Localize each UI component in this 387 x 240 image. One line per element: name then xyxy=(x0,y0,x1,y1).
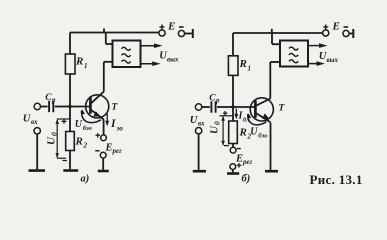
label U_beo (right) xyxy=(250,127,268,140)
wire: +E supply rail (left) xyxy=(70,32,159,34)
wire: R2 to ground (left) xyxy=(69,151,71,170)
svg-text:R: R xyxy=(239,127,247,139)
label Cp (right) xyxy=(209,94,220,105)
polarity + of E_reg (left) xyxy=(96,133,101,138)
label R1 (left) xyxy=(75,56,88,71)
polarity - of E_reg (left) xyxy=(95,150,99,152)
output arrow U_vyx bottom (left) xyxy=(141,61,161,66)
input terminal U_vx top (right) xyxy=(195,104,201,110)
resistor R1 (left) xyxy=(65,54,75,74)
ground (left R2) xyxy=(63,169,78,172)
svg-text:вых: вых xyxy=(167,56,179,64)
transistor T (right) xyxy=(250,98,273,123)
svg-text:R: R xyxy=(75,56,83,68)
svg-text:а): а) xyxy=(81,174,90,185)
wire: collector up to block stub (left) xyxy=(103,62,105,92)
label I_eo (left) xyxy=(110,118,123,133)
svg-text:U: U xyxy=(75,119,83,130)
label Cp (left) xyxy=(45,93,56,104)
capacitor Cp (right) xyxy=(211,101,215,112)
terminal E_reg - (left) xyxy=(100,152,106,158)
svg-text:2: 2 xyxy=(83,142,88,150)
label I_dl (right) xyxy=(238,111,251,124)
output arrow U_vyx top (right) xyxy=(308,43,328,48)
svg-text:U: U xyxy=(250,127,258,138)
ground (left E_reg) xyxy=(98,170,109,173)
wire: E_reg to ground (left) xyxy=(102,158,104,170)
wire: collector stub to block (right) xyxy=(270,61,280,63)
svg-text:E: E xyxy=(235,154,243,165)
node: base divider junction (right) xyxy=(231,105,234,108)
polarity - of E_reg (right) xyxy=(237,148,241,150)
terminal -E (left) xyxy=(178,27,184,37)
svg-text:рег: рег xyxy=(112,147,123,155)
svg-text:вх: вх xyxy=(31,118,38,126)
wire: emitter down to E_reg (left) xyxy=(103,120,105,135)
capacitor Cp (left) xyxy=(49,101,53,112)
wire: rail down to block top stub (left) xyxy=(106,33,113,45)
svg-text:0: 0 xyxy=(213,121,222,125)
label R2 (right) xyxy=(239,127,252,141)
wire from -E terminal with end bar (left) xyxy=(185,29,193,38)
svg-text:1: 1 xyxy=(248,65,252,73)
node: rail junction tick (left) xyxy=(103,29,105,34)
svg-text:р: р xyxy=(215,97,220,105)
transistor T (left) xyxy=(86,92,109,120)
svg-text:Рис. 13.1: Рис. 13.1 xyxy=(310,172,363,187)
terminal +E (right) xyxy=(323,25,329,37)
wire: E_reg to ground (right) xyxy=(232,170,234,173)
label R2 (left) xyxy=(75,136,88,150)
wire: input terminal to Cp (right) xyxy=(202,106,210,108)
wire: base node to R2 (left) xyxy=(69,107,71,132)
wire: Cp to base node (left) xyxy=(55,106,70,108)
voltage annotation U0 (left) xyxy=(55,119,70,161)
wire: rail to R1 (right) xyxy=(232,33,234,56)
terminal E_reg + (left) xyxy=(101,135,107,141)
svg-text:0: 0 xyxy=(50,132,59,136)
output block / transformer (left) xyxy=(113,41,141,68)
svg-text:эо: эо xyxy=(116,125,124,133)
input terminal U_vx top (left) xyxy=(34,103,40,109)
node: base divider junction (left) xyxy=(68,105,71,108)
svg-text:рег: рег xyxy=(242,158,253,166)
svg-text:E: E xyxy=(332,21,340,33)
svg-text:U: U xyxy=(209,125,221,134)
wire from -E terminal with end bar (right) xyxy=(349,29,353,38)
label U_vx (left) xyxy=(23,114,38,127)
wire: lower input terminal to ground (right) xyxy=(198,134,200,170)
wire: base node to transistor base (right) xyxy=(233,106,255,108)
voltage annotation U0 (right) xyxy=(219,111,233,146)
label E_reg (left) xyxy=(105,143,123,156)
node: rail junction tick (right) xyxy=(271,29,273,34)
resistor R2 (right) xyxy=(229,121,238,144)
ground (right input) xyxy=(193,170,206,173)
output block / transformer (right) xyxy=(280,41,308,67)
label E_reg (right) xyxy=(235,154,253,167)
wire: R1 to base node (left) xyxy=(69,74,71,107)
svg-text:U: U xyxy=(46,136,58,145)
current arrow I_dl (right) xyxy=(234,109,238,120)
label U_beo (left) xyxy=(75,119,93,132)
ground (left input) xyxy=(29,169,46,172)
terminal +E (left) xyxy=(159,25,165,37)
wire: input terminal to Cp (left) xyxy=(41,106,48,108)
svg-text:р: р xyxy=(51,96,56,104)
label R1 (right) xyxy=(239,58,252,73)
wire: emitter down to ground (right) xyxy=(270,123,272,171)
label U0 (right, rotated) xyxy=(209,121,222,134)
svg-text:вх: вх xyxy=(198,120,205,128)
svg-text:R: R xyxy=(75,136,83,148)
output arrow U_vyx bottom (right) xyxy=(308,61,325,66)
wire: rail down to block top stub (right) xyxy=(272,33,280,44)
input terminal lower (left) xyxy=(34,128,40,134)
voltage arrow U_beo (right) xyxy=(247,113,266,124)
wire: base node to transistor base (left) xyxy=(70,106,90,108)
svg-text:бэо: бэо xyxy=(258,133,268,140)
svg-text:б): б) xyxy=(242,174,251,185)
wire: R2 to E_reg terminal (right) xyxy=(232,144,234,148)
ground (right emitter) xyxy=(265,170,278,173)
label U0 (left, rotated) xyxy=(46,132,59,145)
resistor R2 (left) xyxy=(66,132,75,151)
terminal E_reg - (right) xyxy=(230,147,236,153)
label U_vyx (right) xyxy=(319,51,339,64)
wire: R1 to base node (right) xyxy=(232,75,234,107)
label U_vx (right) xyxy=(190,115,205,128)
wire: collector up to block stub (right) xyxy=(269,62,271,99)
svg-text:бэо: бэо xyxy=(83,125,93,132)
svg-text:E: E xyxy=(167,21,175,33)
wire: +E supply rail (right) xyxy=(233,32,322,34)
svg-text:1: 1 xyxy=(84,62,88,70)
polarity + of E_reg (right) xyxy=(237,163,242,168)
ground (right E_reg) xyxy=(227,172,239,175)
resistor R1 (right) xyxy=(228,56,238,76)
voltage arrow U_beo (left) xyxy=(81,109,101,122)
svg-text:R: R xyxy=(239,58,247,70)
svg-text:вых: вых xyxy=(327,56,339,64)
wire: lower input terminal to ground (left) xyxy=(36,134,38,169)
wire: collector stub to block (left) xyxy=(104,61,113,63)
input terminal lower (right) xyxy=(195,128,201,134)
terminal -E (right) xyxy=(343,27,349,37)
svg-text:E: E xyxy=(105,143,113,154)
output arrow U_vyx top (left) xyxy=(141,43,163,48)
label U_vyx (left) xyxy=(159,51,179,64)
wire: base node to R2 (right) xyxy=(232,107,234,121)
wire: rail to R1 (left) xyxy=(69,33,71,55)
terminal E_reg + (right) xyxy=(230,164,236,170)
svg-text:I: I xyxy=(110,118,116,130)
wire: Cp to base node (right) xyxy=(217,106,233,108)
current arrow I_eo (left) xyxy=(105,114,109,127)
